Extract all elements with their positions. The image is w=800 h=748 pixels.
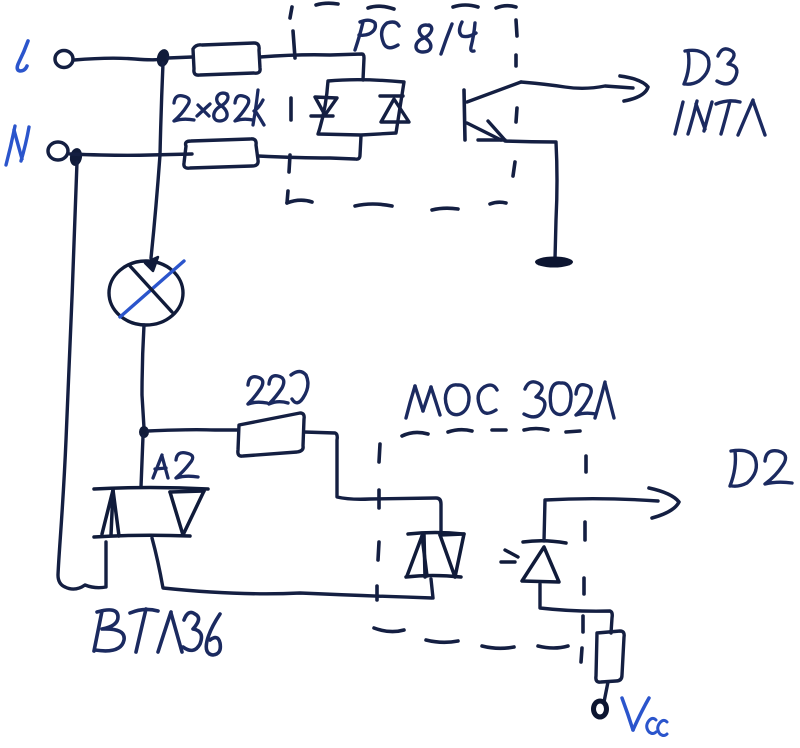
diode D-left (down) of U1 bbox=[311, 97, 337, 116]
arrow D3 bbox=[620, 76, 648, 101]
label INT1 bbox=[675, 100, 765, 135]
node junction N dot bbox=[69, 147, 84, 167]
optotriac U2 output triac symbol bbox=[406, 533, 464, 578]
wire junction to R1 bbox=[168, 57, 192, 58]
wire R2 to opto LED cathode bbox=[258, 136, 361, 159]
label 220 bbox=[248, 372, 308, 405]
resistor R1 (82k top) bbox=[193, 43, 260, 75]
label BT136 bbox=[94, 609, 220, 655]
lamp arrow tip bbox=[145, 257, 158, 271]
wire R1 to opto LED anode bbox=[260, 54, 364, 80]
arrow D2 bbox=[649, 488, 679, 518]
label D3 bbox=[684, 49, 737, 84]
light arrows bbox=[501, 550, 518, 562]
terminal Vcc bbox=[594, 701, 607, 717]
label 2x82k bbox=[174, 90, 264, 125]
phototransistor Q1 emitter with arrow bbox=[467, 121, 505, 140]
wire node A to R3 bbox=[148, 430, 237, 431]
phototransistor Q1 collector bbox=[467, 82, 521, 102]
wire MOC LED bottom to R4 bbox=[540, 584, 612, 633]
resistor R2 (82k bottom) bbox=[184, 139, 258, 168]
diode D4 MOC LED bbox=[522, 541, 566, 582]
wire lamp to node A bbox=[142, 325, 144, 428]
wire N to R2 bbox=[70, 154, 192, 155]
terminal N bbox=[48, 142, 68, 160]
node A junction dot bbox=[139, 426, 149, 438]
wire MOC LED top to D2 arrow bbox=[544, 499, 658, 541]
diode D-right (up) of U1 bbox=[380, 96, 409, 122]
wire MOC triac bottom to main wire bbox=[431, 579, 433, 598]
optotriac U2 dashed box MOC3021 bbox=[374, 429, 586, 663]
wire collector to D3 arrow bbox=[521, 82, 633, 88]
wire junction L down to lamp bbox=[151, 63, 163, 258]
label MOC 3021 bbox=[406, 382, 614, 418]
opto U1 input LED box bbox=[318, 80, 404, 135]
triac Q2 BT136 bbox=[94, 488, 208, 538]
lamp bbox=[109, 261, 184, 325]
label PC 814 bbox=[355, 20, 476, 54]
wire left rail N to triac MT1 bbox=[58, 162, 106, 589]
label Vcc bbox=[622, 698, 649, 730]
node junction L dot bbox=[155, 48, 171, 68]
wire emitter to ground bbox=[505, 141, 557, 259]
node L label bbox=[17, 41, 28, 71]
wire R4 to Vcc bbox=[604, 682, 608, 702]
node N label bbox=[6, 126, 29, 165]
label A2 bbox=[153, 453, 198, 478]
ground bbox=[535, 257, 573, 268]
resistor R3 (220) bbox=[238, 413, 304, 456]
label D2 bbox=[730, 450, 792, 486]
resistor R4 bbox=[596, 631, 624, 682]
optocoupler U1 dashed box PC814 bbox=[287, 3, 517, 210]
terminal L bbox=[55, 51, 73, 68]
wire node A to triac top bbox=[141, 436, 143, 487]
wire triac MT1 to MOC triac bottom bbox=[152, 538, 432, 598]
phototransistor Q1 base bar bbox=[464, 90, 465, 140]
wire R3 to MOC LED top bbox=[304, 432, 441, 532]
wire L to junction bbox=[74, 58, 163, 60]
